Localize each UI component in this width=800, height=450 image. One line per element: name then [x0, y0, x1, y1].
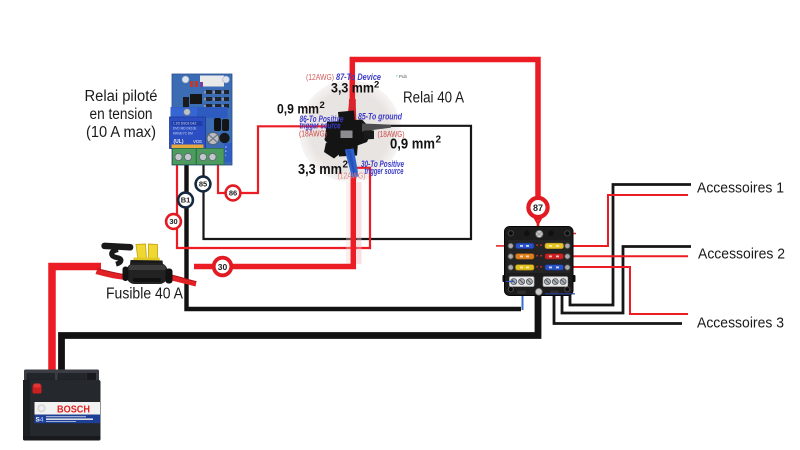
svg-text:86: 86 [229, 189, 237, 198]
label 86-To Positive trigger source [300, 114, 344, 131]
svg-text:Relai 40 A: Relai 40 A [403, 90, 465, 107]
svg-text:trigger source: trigger source [365, 166, 404, 176]
svg-text:Accessoires 3: Accessoires 3 [697, 315, 784, 332]
battery [23, 370, 101, 441]
node 87 [528, 198, 547, 217]
wire accessory 3 negative [554, 293, 682, 324]
svg-text:en tension: en tension [90, 106, 153, 123]
svg-text:(12AWG): (12AWG) [306, 72, 334, 82]
node halo behind relay socket [299, 80, 401, 182]
svg-text:3,3 mm: 3,3 mm [298, 162, 342, 178]
svg-text:3,3 mm: 3,3 mm [331, 80, 374, 96]
svg-text:30: 30 [218, 262, 228, 272]
svg-text:* Pub: * Pub [396, 74, 408, 79]
svg-text:2: 2 [343, 160, 349, 171]
svg-text:BOSCH: BOSCH [57, 404, 90, 416]
relay module PCB [170, 74, 233, 165]
wire 30 thin (module supply to socket pin30) [177, 164, 370, 248]
wire 87 thick (socket pin87 to fuse box feed) [352, 60, 538, 221]
fuse box [503, 227, 576, 296]
svg-text:(10 A max): (10 A max) [86, 124, 156, 141]
svg-text:B1: B1 [181, 196, 191, 205]
wire accessory 2 negative [562, 247, 691, 314]
wire B1 (module output to fuse-box negative bus) [187, 164, 522, 309]
wire accessory 3 positive [573, 267, 688, 314]
svg-text:87: 87 [533, 203, 543, 213]
terminal fork 87 at fuse box [535, 218, 541, 232]
svg-text:VDE: VDE [193, 139, 202, 144]
svg-text:30: 30 [169, 217, 177, 226]
relay socket with pigtails [324, 99, 391, 178]
wire 85 loop (socket pin85 to module ground terminal) [204, 126, 472, 239]
svg-text:0,9 mm: 0,9 mm [390, 137, 435, 153]
wire blue pigtail fuse-box negative [522, 293, 524, 310]
node 85 [196, 177, 211, 192]
svg-text:E: E [225, 149, 227, 153]
wire accessory 1 negative [570, 185, 691, 306]
svg-text:85-To ground: 85-To ground [358, 112, 402, 123]
svg-text:1 ZD DSD3 G4Z: 1 ZD DSD3 G4Z [173, 122, 196, 126]
svg-text:(UL): (UL) [174, 139, 184, 145]
wire 86 (module trigger out to socket pin86) [218, 126, 328, 193]
svg-text:DVD MD DK10E: DVD MD DK10E [173, 127, 197, 131]
svg-text:Relai piloté: Relai piloté [85, 88, 158, 105]
svg-text:(18AWG): (18AWG) [299, 129, 327, 139]
svg-text:Accessoires 1: Accessoires 1 [697, 180, 784, 197]
node 86 [226, 186, 241, 201]
svg-text:2: 2 [374, 80, 379, 91]
wire accessory 1 positive [573, 195, 688, 246]
wire halo artifact [357, 182, 362, 264]
label relay module [85, 88, 158, 141]
label 30-To Positive trigger source [361, 159, 404, 176]
node 30 (module) [166, 214, 181, 229]
svg-text:S4: S4 [36, 417, 44, 424]
svg-text:MRGEYC DM: MRGEYC DM [173, 132, 193, 136]
node B1 [178, 193, 193, 208]
svg-text:Fusible 40 A: Fusible 40 A [106, 286, 184, 303]
wire 30 thick (socket pin30 down to fuse output) [194, 176, 353, 267]
svg-text:2: 2 [320, 100, 325, 111]
wire stub fuse box row1 left [496, 245, 507, 247]
wire accessory 2 positive [573, 255, 688, 257]
wire stub fuse box positive bus [540, 233, 576, 235]
wire battery positive to fuse holder [52, 267, 101, 378]
svg-text:2: 2 [436, 135, 442, 146]
wire ground thick (fuse box to battery negative) [62, 294, 539, 370]
svg-text:Accessoires 2: Accessoires 2 [698, 246, 785, 263]
svg-text:(12AWG): (12AWG) [338, 171, 366, 181]
fuse holder F1 [96, 242, 197, 286]
svg-text:85: 85 [199, 180, 207, 189]
node 30 (supply) [214, 258, 232, 276]
svg-text:R: R [225, 145, 227, 149]
